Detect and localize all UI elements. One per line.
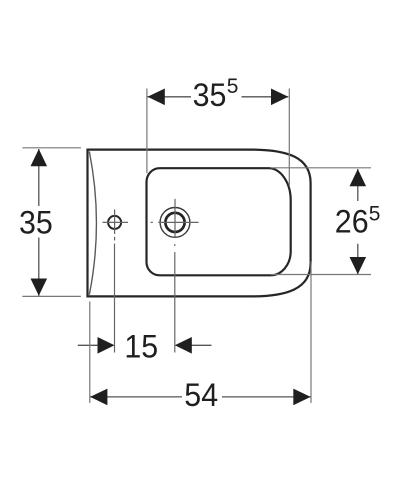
tap hole centerline horizontal (158, 221, 198, 223)
fixation hole centerline vertical (114, 210, 116, 235)
tap hole centerline vertical (174, 199, 176, 238)
dim 355 arrow right (271, 89, 288, 106)
dim 35 line bottom segment (38, 238, 40, 296)
tap hole outer circle (160, 208, 190, 238)
tap hole inner circle (165, 213, 184, 232)
tap hole centerline horizontal dash (151, 221, 153, 223)
dim 54 line left segment (90, 396, 182, 398)
fixation hole extension line down (114, 244, 116, 353)
dim 265 arrow down (350, 257, 367, 274)
inner bowl rim outline (147, 168, 291, 275)
svg-text:35: 35 (193, 77, 227, 113)
fixation hole circle (108, 216, 121, 229)
dim 15 tail right (192, 344, 212, 346)
dim 355 line right segment (242, 96, 289, 98)
svg-text:5: 5 (369, 202, 381, 225)
dim 54 extension line right (310, 262, 312, 404)
dim 35 arrow up (31, 149, 48, 166)
dim 355 arrow left (148, 89, 165, 106)
svg-text:54: 54 (184, 377, 218, 413)
dim 355 line left segment (148, 96, 192, 98)
bidet outer body outline (88, 150, 311, 297)
svg-text:26: 26 (335, 204, 369, 240)
fixation hole centerline dash (114, 237, 116, 241)
dim 54 arrow left (90, 389, 107, 406)
dim 355 extension line right (288, 89, 290, 186)
left inner wall curve (89, 151, 96, 294)
dim 35 extension line bottom (22, 295, 81, 297)
tap hole extension line down (174, 252, 176, 353)
dim 35 arrow down (31, 279, 48, 296)
dim 355 extension line left (146, 89, 148, 174)
dim 54 extension line left (89, 301, 91, 403)
dim 265 line bottom segment (357, 244, 359, 274)
dim 54 arrow right (293, 389, 310, 406)
dim 35 extension line top (22, 147, 81, 149)
dim 265 line top segment (357, 169, 359, 201)
fixation hole centerline horizontal (103, 221, 129, 223)
dim 15 tail left (78, 344, 98, 346)
dim 54 line right segment (222, 396, 311, 398)
svg-text:5: 5 (227, 75, 239, 98)
svg-text:15: 15 (124, 329, 158, 365)
dim 265 arrow up (350, 169, 367, 186)
svg-text:35: 35 (19, 205, 53, 241)
tap hole centerline dash (174, 244, 176, 246)
dim 15 arrow pointing left (175, 337, 192, 354)
dim 35 line top segment (38, 149, 40, 206)
dim 15 arrow pointing right (98, 337, 115, 354)
dim 265 extension line bottom (271, 274, 372, 276)
dim 265 extension line top (271, 167, 372, 169)
